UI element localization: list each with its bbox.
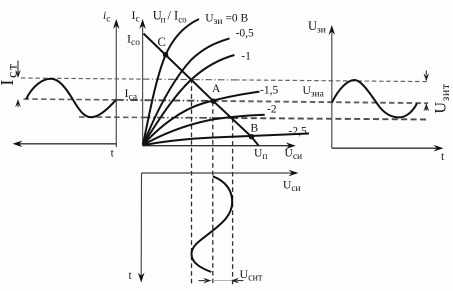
svg-text:Iст: Iст — [0, 62, 19, 85]
lower plot: drain voltage sine wave (vertical) — [192, 176, 233, 272]
vertical guide line: Uси quiescent (through A) — [212, 102, 214, 284]
output characteristic curve Uзи=-2 — [143, 115, 265, 146]
dimension arrows Iст (amplitude) — [15, 61, 21, 108]
horizontal guide line: ic trough level — [79, 116, 143, 118]
svg-text:-0,5: -0,5 — [236, 28, 254, 40]
svg-text:В: В — [251, 123, 259, 135]
point B — [249, 134, 254, 139]
middle plot: vertical axis Ic — [139, 19, 146, 146]
svg-text:Uси: Uси — [285, 147, 303, 162]
dimension arrows Uсит (amplitude) — [199, 278, 244, 284]
right plot: vertical axis Uзи — [329, 25, 336, 148]
svg-text:Iсо: Iсо — [127, 32, 140, 49]
svg-text:-2,5: -2,5 — [289, 126, 307, 138]
svg-text:С: С — [158, 35, 166, 49]
output characteristic curve Uзи=-1,5 — [143, 92, 260, 146]
vertical guide line: Uси max — [232, 118, 234, 285]
point C — [163, 52, 168, 57]
svg-text:-2: -2 — [267, 104, 277, 116]
svg-text:-1: -1 — [241, 51, 251, 63]
right plot: time axis — [332, 145, 444, 152]
vertical guide line: Uси min — [191, 79, 193, 285]
right plot: gate voltage sine wave — [332, 80, 417, 117]
svg-text:Uзи =0 В: Uзи =0 В — [205, 13, 248, 28]
svg-text:Iс: Iс — [132, 8, 140, 25]
svg-text:Uп/Iсо: Uп/Iсо — [153, 8, 187, 24]
svg-text:iс: iс — [103, 10, 110, 25]
label Iст (rotated) — [0, 62, 19, 85]
point A — [211, 99, 216, 104]
output characteristic curve Uзи=0 — [143, 19, 199, 145]
svg-text:Uзиа: Uзиа — [303, 85, 325, 100]
left plot: drain current sine wave — [26, 79, 116, 117]
svg-text:А: А — [212, 83, 221, 95]
label Uзит (rotated) — [433, 83, 452, 113]
svg-text:Uзи: Uзи — [308, 19, 326, 36]
lower plot: vertical time axis — [138, 173, 145, 283]
output characteristic curve Uзи=-0,5 — [143, 38, 230, 145]
horizontal guide line: ic peak level — [21, 78, 143, 79]
svg-text:t: t — [441, 151, 445, 163]
svg-text:t: t — [111, 148, 115, 160]
output characteristic curve Uзи=-2,5 — [143, 134, 309, 146]
horizontal guide line: quiescent level Ica / Uзиа — [24, 98, 117, 101]
middle plot: horizontal axis Uси — [143, 142, 296, 149]
lower plot: horizontal axis Uси — [142, 170, 299, 177]
svg-text:Uп: Uп — [254, 147, 267, 162]
svg-text:Uзит: Uзит — [433, 83, 452, 113]
svg-text:-1,5: -1,5 — [260, 85, 278, 97]
svg-text:t: t — [129, 270, 133, 282]
svg-text:Uси: Uси — [283, 179, 301, 194]
load line C-A-B-Uп — [144, 34, 259, 146]
left plot: vertical axis ic — [113, 19, 120, 147]
left plot: time axis (arrow to the left) — [13, 141, 117, 148]
dimension arrows Uзит (amplitude) — [424, 71, 430, 112]
output characteristic curve Uзи=-1 — [143, 55, 235, 145]
